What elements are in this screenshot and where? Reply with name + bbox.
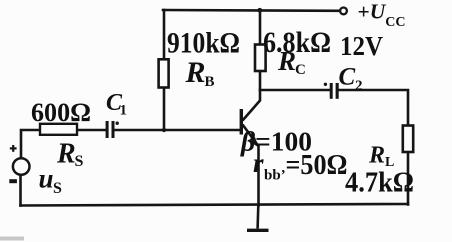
source + polarity mark — [10, 145, 17, 152]
wire: source bottom lead — [19, 175, 22, 206]
svg-text:600Ω: 600Ω — [31, 97, 91, 127]
svg-text:6.8kΩ: 6.8kΩ — [263, 26, 331, 59]
svg-text:+UCC: +UCC — [358, 0, 406, 30]
wire: C2 to right corner and down to R_L — [339, 90, 408, 126]
wire: C1 to base (through R_B junction) — [115, 129, 241, 132]
svg-text:C: C — [295, 62, 306, 78]
svg-text:bb’: bb’ — [264, 168, 286, 184]
resistor R_B body — [159, 59, 169, 87]
svg-text:S: S — [75, 153, 84, 170]
wire: bottom rail — [21, 204, 409, 206]
wire: R_S to C1 — [77, 129, 106, 132]
ground — [247, 206, 269, 231]
transistor Q1 base bar — [240, 109, 243, 135]
wire: R_B top lead — [163, 10, 166, 60]
wire: top supply rail — [163, 9, 340, 12]
resistor R_L body — [403, 126, 413, 153]
source u_S circle — [13, 158, 30, 175]
capacitor C1 plates — [106, 121, 119, 138]
terminal +Ucc — [340, 7, 347, 14]
source - polarity mark — [9, 179, 17, 183]
wire: R_C bottom lead to collector node — [259, 71, 262, 90]
svg-text:R: R — [185, 56, 206, 89]
svg-text:B: B — [205, 74, 215, 90]
node: R_B / base junction dot — [162, 128, 166, 132]
svg-text:12V: 12V — [340, 31, 383, 61]
scan artifact bottom-left — [0, 237, 24, 241]
svg-text:1: 1 — [120, 103, 128, 119]
node: R_C / top rail junction dot — [257, 8, 262, 13]
wire: R_L bottom lead — [407, 152, 410, 205]
transistor Q1 emitter arrow — [250, 137, 259, 148]
capacitor C2 plates — [324, 83, 339, 99]
svg-text:910kΩ: 910kΩ — [167, 27, 240, 60]
svg-text:S: S — [53, 180, 62, 197]
resistor R_C body — [255, 45, 266, 72]
svg-text:R: R — [56, 139, 76, 170]
transistor Q1 emitter lead — [243, 125, 259, 146]
wire: source to R_S (input line left) — [21, 130, 40, 159]
wire: emitter lead down to bottom rail — [257, 146, 260, 206]
wire: R_B bottom lead to base node — [163, 88, 166, 131]
svg-text:r: r — [253, 148, 264, 178]
svg-text:=50Ω: =50Ω — [286, 150, 348, 181]
svg-text:4.7kΩ: 4.7kΩ — [345, 167, 414, 199]
wire: collector node to C2 — [260, 89, 330, 92]
svg-text:R: R — [277, 46, 296, 76]
resistor R_S body — [40, 124, 77, 135]
svg-text:C: C — [339, 64, 356, 91]
transistor Q1 collector lead — [243, 90, 261, 121]
svg-text:R: R — [368, 143, 385, 169]
svg-text:u: u — [39, 164, 54, 194]
svg-text:2: 2 — [355, 78, 363, 94]
wire: R_C top lead — [259, 11, 262, 45]
